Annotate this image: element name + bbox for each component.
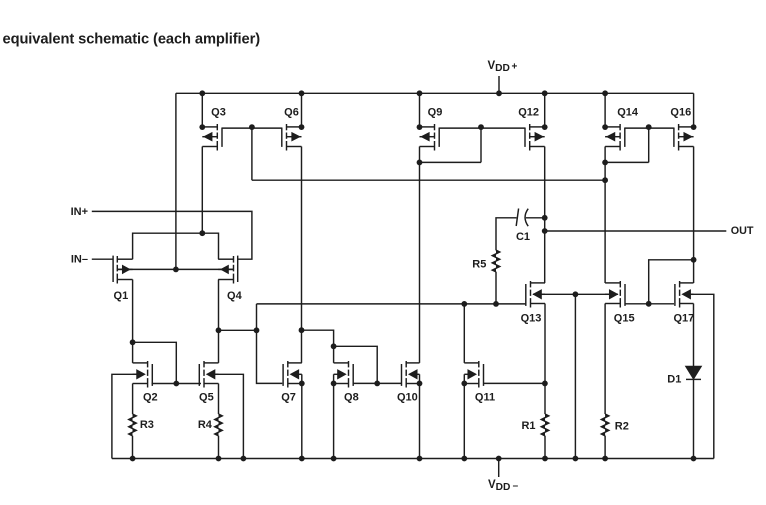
wire R5 top from C1 node xyxy=(496,218,517,250)
junction y180 bus / Q14 source line xyxy=(602,177,608,183)
transistor Q16 xyxy=(674,124,694,151)
junction Q11 drain / gate bus xyxy=(461,301,467,307)
wire Q5 source to R4 xyxy=(218,384,220,415)
transistor Q3 xyxy=(202,124,222,151)
wire Q4 source down through node to Q5 drain xyxy=(218,280,220,363)
junction rail / Q5 body xyxy=(241,456,247,462)
transistor Q14 xyxy=(605,124,625,151)
wire R5 bottom to gate bus xyxy=(495,272,497,304)
junction Q10 source xyxy=(417,381,423,387)
transistor Q12 xyxy=(525,124,545,151)
wire Q8 body vertical xyxy=(333,374,335,383)
junction Q4 source / Q5 drain xyxy=(216,327,222,333)
transistor Q6 xyxy=(282,124,302,151)
svg-text:IN+: IN+ xyxy=(71,206,88,218)
svg-text:Q14: Q14 xyxy=(617,107,639,119)
wire R4 bottom to rail xyxy=(218,436,220,459)
wire Q1 source down to Q2 drain xyxy=(132,280,134,363)
svg-text:R2: R2 xyxy=(615,421,629,433)
wire Q3 drain to rail xyxy=(201,93,203,127)
wire Q17 body lead down to rail right end xyxy=(686,294,714,458)
junction top rail / Q14 xyxy=(602,90,608,96)
junction top rail / Q6 xyxy=(299,90,305,96)
wire Q15 source to R2 xyxy=(604,304,606,415)
wire VDD+ rail (top) xyxy=(176,92,694,94)
wire Q13 source to R1 xyxy=(544,304,546,415)
junction Q14 gate-source tie xyxy=(602,160,608,166)
svg-text:R4: R4 xyxy=(198,419,213,431)
wire VDD- rail (bottom) xyxy=(112,458,714,460)
wire gate-node bus to Q14 source node (y=180) xyxy=(252,179,605,181)
junction rail / body bus xyxy=(573,456,579,462)
wire D1 cathode to rail xyxy=(693,379,695,458)
transistor Q2 xyxy=(133,361,153,388)
junction top rail / Q3 xyxy=(199,90,205,96)
wire VDD+ stub xyxy=(498,76,500,93)
resistor R5 xyxy=(492,250,500,272)
resistor R1 xyxy=(541,414,549,436)
junction Q8 source xyxy=(331,381,337,387)
wire R3 bottom to rail xyxy=(132,436,134,459)
wire Q12 source down to Q13 drain (through C1/OUT nodes) xyxy=(544,147,546,284)
wire Q8-Q10 gate line xyxy=(353,382,401,384)
wire Q11 source to rail xyxy=(463,383,465,458)
transistor Q4 xyxy=(218,256,238,284)
transistor Q17 xyxy=(675,281,694,308)
wire Q12 drain to rail xyxy=(544,93,546,127)
svg-text:VDD+: VDD+ xyxy=(488,60,518,74)
svg-text:Q16: Q16 xyxy=(670,107,691,119)
wire R2 bottom to rail xyxy=(604,436,606,459)
wire Q9-Q12 gate line xyxy=(439,127,525,129)
wire Q5 body lead down to rail xyxy=(214,374,243,458)
wire Q7 source to rail xyxy=(301,383,303,458)
junction R1 top / Q11 gate xyxy=(542,381,548,387)
wire Q2-Q5 gate line xyxy=(152,383,202,385)
wire Q14/Q16 gate node down xyxy=(648,127,650,162)
junction Q12 drain xyxy=(542,124,548,130)
junction rail / Q7 xyxy=(299,456,305,462)
svg-text:Q17: Q17 xyxy=(674,313,695,325)
wire OUT line xyxy=(545,230,727,232)
junction rail / VDD- stub xyxy=(496,456,502,462)
junction rail / Q11 xyxy=(461,456,467,462)
wire Q11 drain up to gate bus xyxy=(463,304,465,363)
junction node M (Q6 source/Q7 drain) xyxy=(299,327,305,333)
junction Q8 drain node xyxy=(331,343,337,349)
junction Q11 source xyxy=(461,381,467,387)
junction Q9/Q12 gate node xyxy=(478,124,484,130)
wire Q11 gate line to R1 node xyxy=(483,382,545,384)
junction Q16 drain xyxy=(691,124,697,130)
svg-text:Q9: Q9 xyxy=(428,107,443,119)
wire R1 bottom to rail xyxy=(544,436,546,459)
junction rail / Q10 xyxy=(417,456,423,462)
wire Q7 body vertical xyxy=(301,374,303,383)
wire Q3/Q6 gate node down xyxy=(251,127,253,180)
transistor Q9 xyxy=(420,124,440,151)
svg-text:Q2: Q2 xyxy=(143,392,158,404)
wire Q4-source node over to bus drop xyxy=(219,329,257,331)
wire Q13-Q15 body bus xyxy=(533,293,618,295)
junction C1 / Q12 source line xyxy=(542,215,548,221)
svg-text:Q10: Q10 xyxy=(397,392,418,404)
svg-text:R1: R1 xyxy=(521,420,535,432)
svg-text:VDD–: VDD– xyxy=(488,479,519,493)
junction bus drop / Q4 source node xyxy=(254,327,260,333)
wire Q2 drain node over to Q2/Q5 gate tie xyxy=(133,342,177,383)
wire Q3 source down to diff-pair drain line xyxy=(201,147,203,234)
wire diff-pair drain line (Q1-Q4 tops) xyxy=(133,233,219,259)
wire Q15-Q17 gate line xyxy=(625,303,674,305)
transistor Q5 xyxy=(199,361,218,388)
junction OUT node xyxy=(542,228,548,234)
wire top-rail right corner down to Q16 drain xyxy=(693,93,695,127)
junction Q7 source xyxy=(299,381,305,387)
transistor Q1 xyxy=(113,256,133,284)
wire Q14-Q16 gate line xyxy=(625,127,674,129)
wire Q14 drain to rail xyxy=(604,93,606,127)
wire Q9 drain to rail xyxy=(419,93,421,127)
junction Q3 source / diff drain line xyxy=(199,230,205,236)
resistor R2 xyxy=(601,414,609,436)
junction rail / D1 xyxy=(691,456,697,462)
wire Q8 source to rail xyxy=(333,383,335,458)
wire Q15/Q17 gate node up to Q16 source line xyxy=(649,260,694,304)
junction Q16 source / gate link xyxy=(691,257,697,263)
svg-text:R5: R5 xyxy=(472,258,486,270)
svg-text:Q5: Q5 xyxy=(199,392,214,404)
wire VDD- stub xyxy=(498,459,500,478)
junction rail / R2 xyxy=(602,456,608,462)
wire Q14 gate-source tie xyxy=(605,161,649,163)
wire Q6 drain to rail xyxy=(301,93,303,127)
svg-text:IN–: IN– xyxy=(71,253,88,265)
wire C1 right plate to node xyxy=(526,217,545,219)
wire Q10 source to rail xyxy=(419,383,421,458)
wire Q2 source to R3 xyxy=(132,384,134,415)
wire Q10 body vertical xyxy=(419,374,421,383)
transistor Q13 xyxy=(526,281,545,308)
junction Q14/Q16 gate node xyxy=(646,124,652,130)
wire Q11 body vertical xyxy=(463,374,465,383)
capacitor C1 xyxy=(516,209,528,227)
junction rail / R1 xyxy=(542,456,548,462)
junction Q6 drain xyxy=(299,124,305,130)
junction R5 / gate bus xyxy=(493,301,499,307)
transistor Q8 xyxy=(334,361,354,388)
junction Q2/Q5 gate tie xyxy=(173,381,179,387)
svg-text:Q4: Q4 xyxy=(227,290,243,302)
wire Q14 source down to Q15 drain xyxy=(604,147,606,284)
svg-text:equivalent schematic (each amp: equivalent schematic (each amplifier) xyxy=(3,32,261,48)
junction Q9 drain xyxy=(417,124,423,130)
transistor Q15 xyxy=(605,281,625,308)
wire Q17 source down to D1 xyxy=(693,304,695,367)
svg-text:Q1: Q1 xyxy=(114,290,129,302)
wire Q6 source down to Q7 drain xyxy=(301,147,303,363)
svg-text:Q11: Q11 xyxy=(475,392,495,404)
svg-text:Q7: Q7 xyxy=(281,392,296,404)
wire Q16 source down to Q17 drain xyxy=(693,147,695,284)
junction top rail / VDD+ stub xyxy=(496,90,502,96)
svg-text:C1: C1 xyxy=(516,231,530,243)
wire Q3-Q6 gate line xyxy=(222,127,282,129)
junction Q15/Q17 gate node xyxy=(646,301,652,307)
svg-text:Q3: Q3 xyxy=(211,107,226,119)
junction Q8/Q10 gate node xyxy=(374,381,380,387)
junction rail / R4 xyxy=(216,456,222,462)
junction Q1 source / Q2 drain xyxy=(130,339,136,345)
wire top-rail left corner down to diff-pair tail node xyxy=(175,93,177,269)
wire node M over and down to Q8 drain xyxy=(302,330,334,363)
wire Q2 body lead to rail (left end) xyxy=(112,374,137,458)
svg-text:D1: D1 xyxy=(667,373,681,385)
svg-text:Q15: Q15 xyxy=(614,313,635,325)
wire IN+ line xyxy=(92,211,252,259)
junction Q13/Q15 body bus xyxy=(573,291,579,297)
svg-text:Q13: Q13 xyxy=(521,313,542,325)
junction diff-pair tail xyxy=(173,267,179,273)
junction Q3/Q6 gate node xyxy=(249,124,255,130)
svg-text:R3: R3 xyxy=(140,419,154,431)
junction top rail / Q12 xyxy=(542,90,548,96)
wire Q9 source down to Q10 drain xyxy=(419,147,421,363)
diode D1 xyxy=(686,367,701,380)
junction Q3 drain xyxy=(199,124,205,130)
svg-text:OUT: OUT xyxy=(731,225,754,237)
wire IN- line xyxy=(92,258,113,260)
junction Q9 gate-source tie xyxy=(417,160,423,166)
transistor Q11 xyxy=(464,361,483,388)
junction rail / Q8 xyxy=(331,456,337,462)
wire mirror bus drop (Q13 gate bus left end) xyxy=(257,304,283,384)
resistor R3 xyxy=(129,414,137,436)
junction rail / R3 xyxy=(130,456,136,462)
wire Q9 gate-source tie xyxy=(420,161,482,163)
transistor Q10 xyxy=(402,361,420,388)
svg-text:Q8: Q8 xyxy=(344,392,359,404)
junction Q14 drain xyxy=(602,124,608,130)
transistor Q7 xyxy=(283,361,302,388)
svg-text:Q6: Q6 xyxy=(284,107,299,119)
wire diff-pair tail bus (Q1/Q4 body leads) xyxy=(118,268,233,270)
wire Q9/Q12 gate node down xyxy=(480,127,482,162)
junction top rail / Q9 xyxy=(417,90,423,96)
wire Q8 drain node over/down to Q8/Q10 gate line xyxy=(334,346,378,383)
wire Q13 gate bus (y=304) xyxy=(257,303,526,305)
resistor R4 xyxy=(215,414,223,436)
svg-text:Q12: Q12 xyxy=(518,107,539,119)
wire body-bus node down to rail xyxy=(574,294,576,458)
